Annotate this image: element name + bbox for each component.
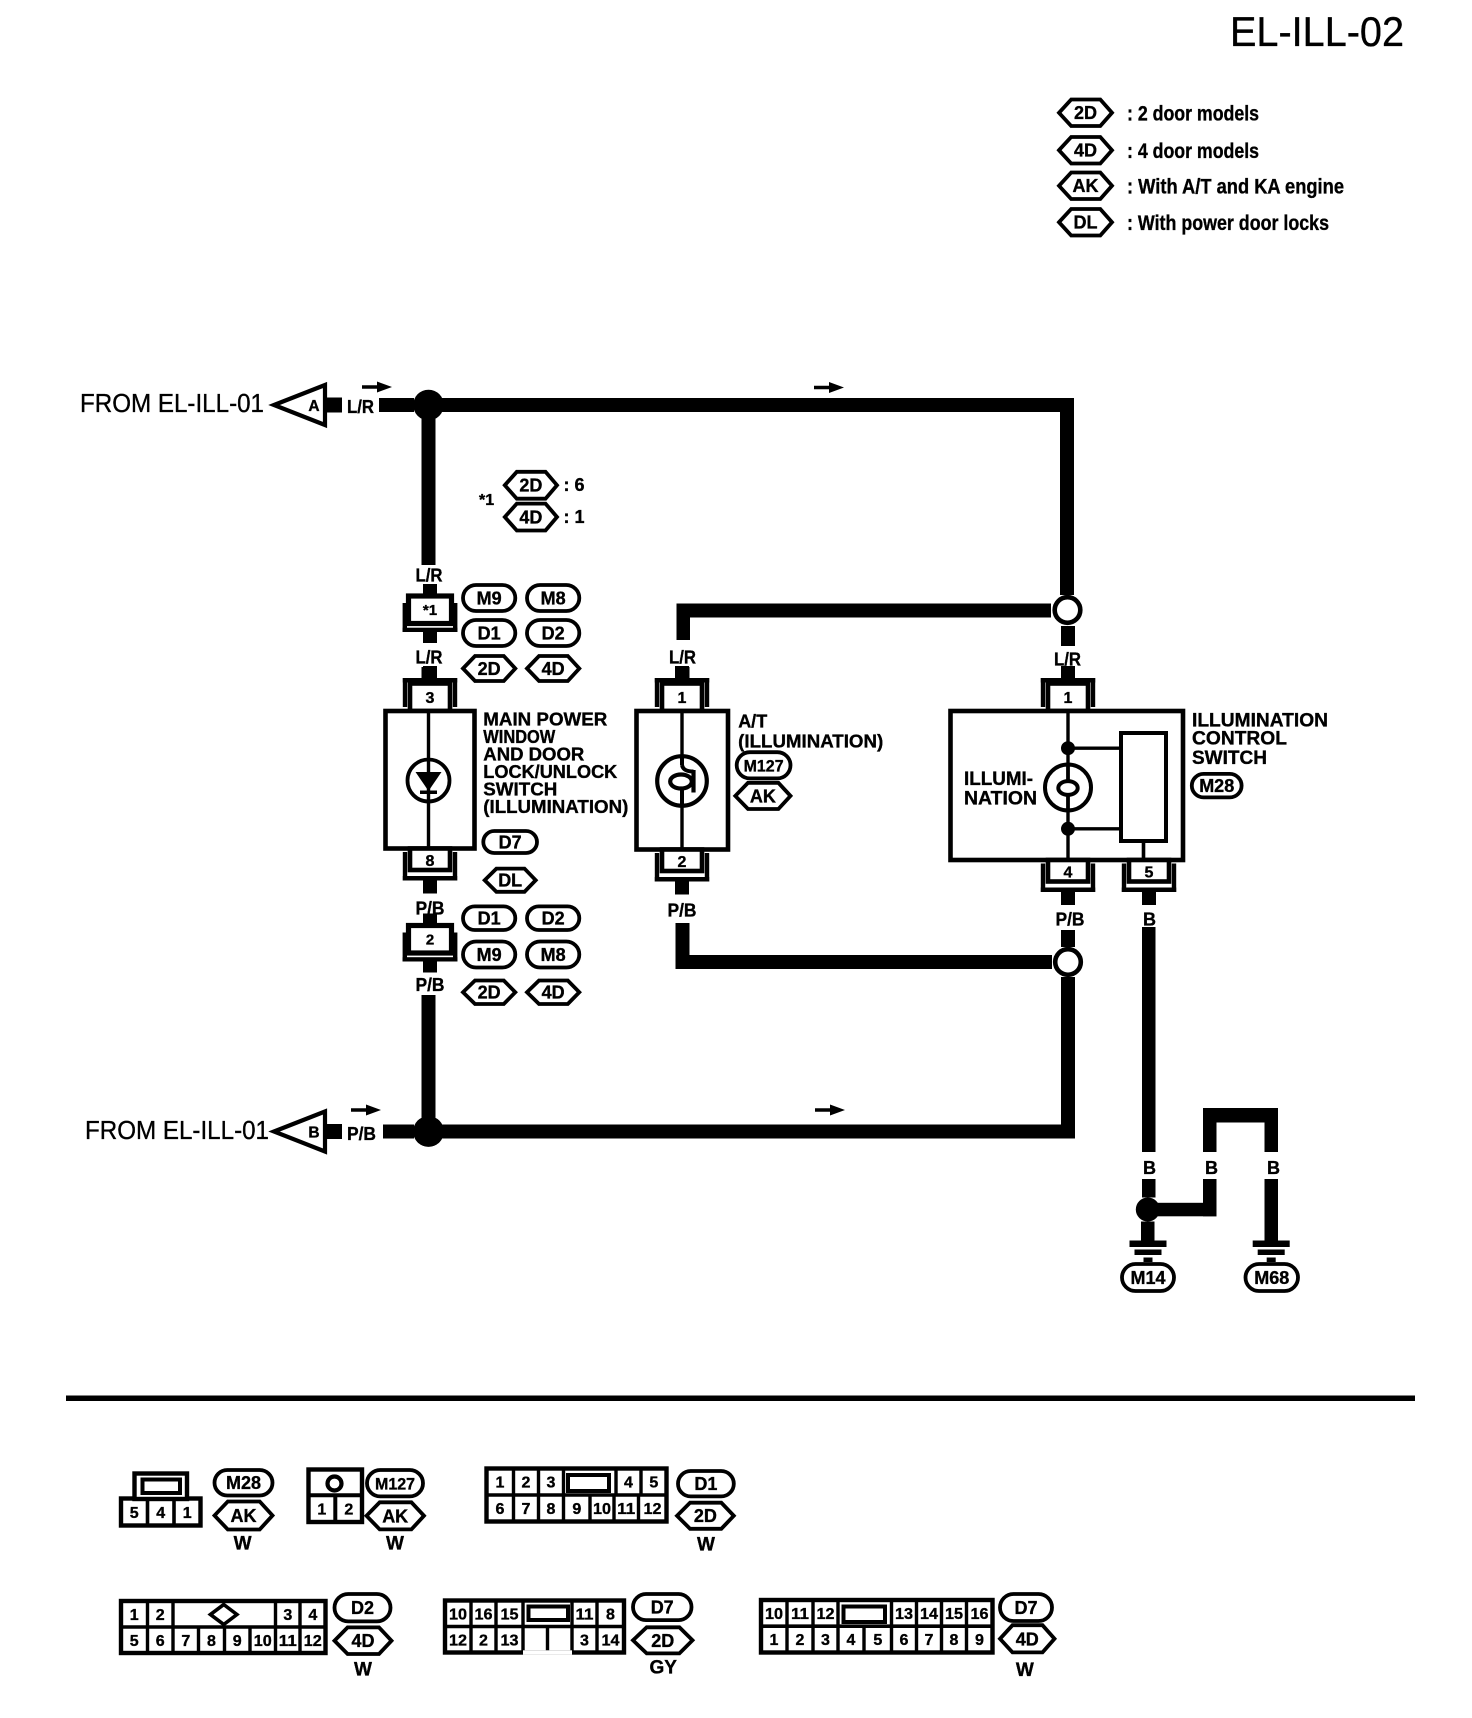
svg-text:10: 10 <box>593 1501 611 1518</box>
svg-text:AK: AK <box>382 1506 408 1526</box>
svg-text:M68: M68 <box>1254 1268 1289 1288</box>
svg-text:5: 5 <box>130 1633 139 1650</box>
svg-text:A: A <box>308 398 319 415</box>
svg-text:2: 2 <box>344 1501 353 1518</box>
svg-text:*1: *1 <box>479 492 494 509</box>
svg-text:P/B: P/B <box>668 901 697 921</box>
svg-text:9: 9 <box>975 1632 984 1649</box>
svg-text:2: 2 <box>796 1632 805 1649</box>
svg-text:4: 4 <box>624 1475 633 1492</box>
svg-text:1: 1 <box>317 1501 326 1518</box>
svg-text:: With A/T and KA engine: : With A/T and KA engine <box>1127 176 1344 199</box>
svg-text:10: 10 <box>765 1606 783 1623</box>
svg-text:8: 8 <box>547 1501 556 1518</box>
svg-text:3: 3 <box>283 1607 292 1624</box>
svg-text:B: B <box>308 1125 319 1142</box>
svg-text:11: 11 <box>279 1633 297 1650</box>
svg-text:8: 8 <box>606 1606 615 1623</box>
svg-text:W: W <box>354 1659 372 1680</box>
svg-text:4: 4 <box>847 1632 856 1649</box>
svg-text:2D: 2D <box>651 1631 674 1651</box>
svg-text:3: 3 <box>426 690 435 707</box>
svg-text:6: 6 <box>156 1633 165 1650</box>
svg-text:D1: D1 <box>478 909 501 929</box>
svg-text:2D: 2D <box>519 476 542 496</box>
svg-text:4: 4 <box>1064 865 1073 882</box>
svg-text:ILLUMI-: ILLUMI- <box>964 769 1033 790</box>
svg-text:FROM EL-ILL-01: FROM EL-ILL-01 <box>85 1115 269 1145</box>
svg-text:2: 2 <box>479 1632 488 1649</box>
svg-text:: With power door locks: : With power door locks <box>1127 212 1329 235</box>
svg-text:7: 7 <box>925 1632 934 1649</box>
svg-text:11: 11 <box>617 1501 635 1518</box>
svg-text:2: 2 <box>522 1475 531 1492</box>
svg-text:4D: 4D <box>1074 141 1097 161</box>
svg-text:D1: D1 <box>694 1474 717 1494</box>
svg-text:EL-ILL-02: EL-ILL-02 <box>1230 8 1404 55</box>
svg-text:2: 2 <box>156 1607 165 1624</box>
svg-text:2D: 2D <box>478 659 501 679</box>
svg-text:5: 5 <box>649 1475 658 1492</box>
svg-text:10: 10 <box>449 1606 467 1623</box>
svg-text:8: 8 <box>207 1633 216 1650</box>
svg-text:4: 4 <box>308 1607 317 1624</box>
svg-text:B: B <box>1205 1158 1218 1178</box>
svg-text:13: 13 <box>895 1606 913 1623</box>
svg-text:8: 8 <box>950 1632 959 1649</box>
svg-text:12: 12 <box>644 1501 662 1518</box>
svg-text:M127: M127 <box>744 756 784 775</box>
svg-text:14: 14 <box>602 1632 620 1649</box>
svg-text:D7: D7 <box>1014 1598 1037 1618</box>
svg-text:4D: 4D <box>542 983 565 1003</box>
svg-text:NATION: NATION <box>964 789 1037 810</box>
svg-text:L/R: L/R <box>416 566 443 586</box>
svg-text:5: 5 <box>873 1632 882 1649</box>
svg-text:FROM EL-ILL-01: FROM EL-ILL-01 <box>80 388 264 418</box>
svg-text:D7: D7 <box>651 1598 674 1618</box>
svg-text:7: 7 <box>522 1501 531 1518</box>
svg-text:7: 7 <box>181 1633 190 1650</box>
svg-text:D2: D2 <box>542 624 565 644</box>
svg-text:4D: 4D <box>351 1631 374 1651</box>
svg-text:M9: M9 <box>477 945 502 965</box>
svg-text:P/B: P/B <box>1056 910 1085 930</box>
svg-text:B: B <box>1143 910 1156 930</box>
svg-text:4D: 4D <box>542 659 565 679</box>
svg-text:5: 5 <box>130 1505 139 1522</box>
svg-text:D2: D2 <box>542 909 565 929</box>
svg-text:13: 13 <box>501 1632 519 1649</box>
svg-text:1: 1 <box>496 1475 505 1492</box>
svg-text:A/T: A/T <box>738 712 767 732</box>
svg-text:15: 15 <box>501 1606 519 1623</box>
svg-text:11: 11 <box>791 1606 809 1623</box>
svg-text:2D: 2D <box>478 983 501 1003</box>
svg-text:DL: DL <box>498 871 522 891</box>
svg-text:P/B: P/B <box>416 975 445 995</box>
svg-text:4: 4 <box>156 1505 165 1522</box>
svg-text:10: 10 <box>254 1633 272 1650</box>
svg-text:2: 2 <box>678 854 687 871</box>
svg-text:9: 9 <box>572 1501 581 1518</box>
svg-text:M8: M8 <box>541 945 566 965</box>
svg-text:B: B <box>1143 1158 1156 1178</box>
svg-text:2: 2 <box>426 932 434 949</box>
svg-text:M9: M9 <box>477 589 502 609</box>
svg-text:1: 1 <box>183 1505 192 1522</box>
svg-text:2D: 2D <box>1074 103 1097 123</box>
svg-text:2D: 2D <box>694 1506 717 1526</box>
svg-text:D2: D2 <box>351 1598 374 1618</box>
svg-text:1: 1 <box>678 690 687 707</box>
svg-text:16: 16 <box>475 1606 493 1623</box>
svg-text:W: W <box>1016 1660 1034 1681</box>
svg-text:M14: M14 <box>1130 1268 1165 1288</box>
svg-text:12: 12 <box>449 1632 467 1649</box>
svg-text:3: 3 <box>580 1632 589 1649</box>
svg-text:14: 14 <box>920 1606 938 1623</box>
svg-text:AK: AK <box>750 786 776 806</box>
svg-text:(ILLUMINATION): (ILLUMINATION) <box>738 732 883 752</box>
svg-text:3: 3 <box>821 1632 830 1649</box>
svg-text:B: B <box>1267 1158 1280 1178</box>
svg-text:1: 1 <box>1064 690 1073 707</box>
svg-text:DL: DL <box>1074 213 1098 233</box>
svg-text:15: 15 <box>945 1606 963 1623</box>
svg-text:L/R: L/R <box>669 648 696 668</box>
svg-text:12: 12 <box>817 1606 835 1623</box>
svg-text:6: 6 <box>900 1632 909 1649</box>
svg-text:SWITCH: SWITCH <box>1192 748 1267 769</box>
svg-text:: 4 door models: : 4 door models <box>1127 140 1259 163</box>
svg-text:: 6: : 6 <box>564 475 585 495</box>
svg-text:CONTROL: CONTROL <box>1192 729 1287 750</box>
svg-text:W: W <box>234 1533 252 1554</box>
svg-text:8: 8 <box>426 853 435 870</box>
svg-text:W: W <box>697 1534 715 1555</box>
svg-text:GY: GY <box>649 1657 677 1678</box>
svg-text:4D: 4D <box>519 508 542 528</box>
svg-text:3: 3 <box>547 1475 556 1492</box>
svg-text:W: W <box>386 1533 404 1554</box>
svg-text:11: 11 <box>576 1606 594 1623</box>
svg-text:: 1: : 1 <box>564 507 585 527</box>
svg-text:D1: D1 <box>478 624 501 644</box>
svg-text:1: 1 <box>770 1632 779 1649</box>
svg-text:AK: AK <box>1073 176 1099 196</box>
svg-text:*1: *1 <box>423 602 437 619</box>
svg-text:M8: M8 <box>541 589 566 609</box>
svg-text:1: 1 <box>130 1607 139 1624</box>
svg-text:9: 9 <box>233 1633 242 1650</box>
svg-text:D7: D7 <box>499 833 522 853</box>
svg-text:M28: M28 <box>1199 776 1234 796</box>
svg-text:L/R: L/R <box>347 397 374 417</box>
svg-text:5: 5 <box>1145 865 1154 882</box>
svg-text:L/R: L/R <box>416 648 443 668</box>
svg-text:: 2 door models: : 2 door models <box>1127 103 1259 126</box>
svg-text:12: 12 <box>304 1633 322 1650</box>
svg-text:M28: M28 <box>226 1473 261 1493</box>
svg-text:M127: M127 <box>375 1474 415 1493</box>
svg-text:6: 6 <box>496 1501 505 1518</box>
svg-text:4D: 4D <box>1016 1629 1039 1649</box>
svg-text:P/B: P/B <box>347 1124 376 1144</box>
svg-text:(ILLUMINATION): (ILLUMINATION) <box>483 797 628 817</box>
svg-text:16: 16 <box>971 1606 989 1623</box>
svg-text:AK: AK <box>231 1506 257 1526</box>
